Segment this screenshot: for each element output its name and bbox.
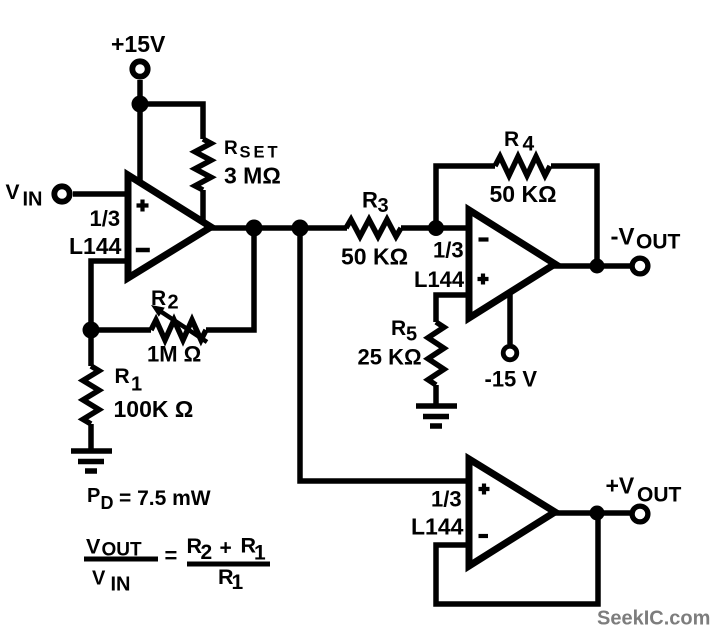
svg-text:+V: +V [606,473,635,499]
svg-text:1: 1 [254,542,266,565]
resistor R2 (horizontal zigzag) [151,320,206,340]
wire VIN to U1 + input [73,191,127,197]
wire U3 feedback loop [436,513,598,604]
svg-text:1: 1 [131,374,142,396]
wire feedback node down to R1 [88,330,94,366]
svg-text:R: R [504,128,519,151]
power terminal +15V [132,61,147,76]
power terminal -15V [503,346,517,360]
junction U3 output node [590,506,605,521]
wire node B down and right to U3 + input [300,228,468,481]
R2 wiper arrow [160,311,207,342]
formula fraction bar left [84,557,158,562]
svg-text:+: + [220,537,232,560]
svg-text:2: 2 [168,292,179,314]
svg-text:OUT: OUT [636,231,681,254]
svg-text:25 KΩ: 25 KΩ [358,345,422,370]
svg-text:5: 5 [406,324,417,346]
svg-text:V: V [92,568,106,590]
svg-text:-V: -V [611,224,635,251]
wire R1 bottom to ground [88,424,94,449]
svg-text:50 KΩ: 50 KΩ [490,181,557,207]
svg-text:1: 1 [232,571,244,594]
formula fraction bar right [187,562,270,567]
resistor R1 (vertical zigzag) [83,366,99,424]
resistor R4 (horizontal zigzag) [495,157,550,176]
wire U3 output [553,510,630,516]
output terminal +VOUT [632,506,648,522]
svg-text:R: R [151,287,166,310]
wire U2 output [553,263,630,269]
svg-text:V: V [6,181,20,204]
svg-text:-15 V: -15 V [485,367,538,392]
wire U1 - input to feedback node [91,261,127,330]
svg-text:=: = [165,543,178,568]
resistor RSET (vertical zigzag) [195,139,211,190]
svg-text:L144: L144 [414,267,465,292]
junction U2 output node [590,259,605,274]
wire feedback node to R2 left lead [91,327,151,333]
ground below R5 [416,406,457,426]
svg-text:1M Ω: 1M Ω [147,342,201,367]
junction U2 inverting node [428,220,444,236]
svg-text:R: R [362,188,378,213]
U2 - input symbol [479,237,489,241]
junction node A [246,220,263,237]
wire U1 output bus to R3 [204,225,347,231]
svg-text:V: V [86,535,101,559]
svg-text:1/3: 1/3 [431,487,462,512]
wire U2 + input to R5 top [436,295,469,322]
svg-text:IN: IN [111,574,131,596]
ground below R1 [71,451,112,471]
svg-text:D: D [101,493,114,513]
wire U2 bottom edge to -15V terminal [507,291,513,344]
U1 - input symbol [136,248,150,253]
U1 + input symbol [137,200,149,212]
svg-text:L144: L144 [69,233,122,259]
op-amp U1 (1/3 L144) triangle [128,175,211,278]
op-amp U2 triangle [469,210,555,318]
svg-text:3 MΩ: 3 MΩ [224,163,281,189]
wire +15V terminal down to op-amp U1 top edge [137,80,143,183]
wire R3 to U2 - input [401,225,469,231]
svg-text:+15V: +15V [111,31,166,57]
svg-text:R: R [391,317,406,340]
svg-text:1/3: 1/3 [90,206,121,231]
svg-text:1/3: 1/3 [433,238,464,263]
svg-text:P: P [87,485,100,507]
U3 - input symbol [479,534,489,538]
junction feedback node [83,322,100,339]
svg-text:= 7.5 mW: = 7.5 mW [119,487,211,510]
op-amp U3 triangle [469,459,555,566]
svg-text:2: 2 [201,541,213,564]
svg-text:4: 4 [523,133,535,156]
svg-text:R: R [224,138,238,159]
junction node B [292,220,309,237]
svg-text:L144: L144 [411,514,464,540]
svg-text:3: 3 [378,195,389,217]
svg-text:50 KΩ: 50 KΩ [341,244,408,270]
U2 + input symbol [478,274,489,285]
resistor R3 (horizontal zigzag) [346,220,401,237]
junction +15V node [132,96,149,113]
output terminal -VOUT [632,258,648,274]
wire +15V node to RSET top [140,104,203,139]
wire RSET bottom to U1 output node [200,190,206,226]
wire R5 bottom to ground [433,385,439,404]
wire node A down to R2 right lead [206,228,254,330]
svg-text:IN: IN [23,189,43,211]
U3 + input symbol [479,484,490,495]
svg-text:OUT: OUT [637,484,682,507]
resistor R5 (vertical zigzag) [428,322,444,385]
wire feedback loop to R4 [436,166,597,266]
input terminal VIN [54,186,69,201]
svg-text:100K Ω: 100K Ω [114,396,194,422]
svg-text:R: R [115,365,130,388]
svg-text:SeekIC.com: SeekIC.com [597,608,710,630]
svg-text:SET: SET [240,144,281,162]
